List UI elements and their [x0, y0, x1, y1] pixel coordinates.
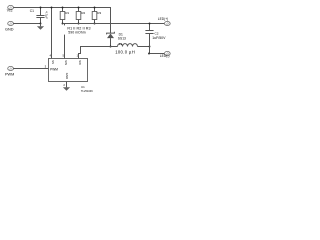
terminal LED(+) — [158, 17, 170, 26]
wire SW node to U1 SW pin — [79, 47, 111, 59]
terminal LED(-) — [160, 51, 170, 58]
wire sense rail to LED+ terminal — [63, 23, 165, 25]
terminal GND — [5, 21, 14, 31]
node junction C1 bottom / GND wire — [40, 23, 42, 25]
svg-text:R2: R2 — [81, 11, 85, 15]
svg-text:1uF/50V: 1uF/50V — [152, 36, 166, 40]
svg-text:R3: R3 — [97, 11, 101, 15]
svg-text:100.0 µH: 100.0 µH — [115, 50, 135, 55]
svg-text:GND: GND — [65, 73, 69, 79]
svg-text:PWM: PWM — [50, 67, 58, 71]
node corner to LED- wire — [148, 53, 150, 55]
wire top rail from Vcc to corner, down to diode cathode — [13, 8, 110, 34]
terminal Vcc — [7, 5, 14, 12]
node junction VIN drop on rail — [51, 7, 53, 9]
svg-text:Vcc: Vcc — [7, 9, 13, 13]
inductor L1 — [111, 42, 150, 54]
wire U1 GND pin — [66, 82, 68, 88]
node R2 bottom — [78, 23, 80, 25]
capacitor C2 — [145, 24, 166, 54]
svg-text:U1: U1 — [81, 85, 85, 89]
node R3 bottom — [94, 23, 96, 25]
ground symbol under U1 — [63, 87, 70, 91]
svg-text:GND: GND — [5, 27, 14, 31]
node SW junction at diode anode — [110, 46, 112, 48]
svg-text:LED(-): LED(-) — [160, 54, 170, 58]
value label R1 R2 R3 590 mOhm — [63, 25, 92, 34]
node junction C1 top on rail — [40, 7, 42, 9]
svg-text:SS13: SS13 — [118, 37, 126, 41]
wire GND terminal to C1 bottom node — [13, 23, 40, 25]
svg-text:VIN: VIN — [64, 60, 68, 65]
terminal PWM — [5, 66, 14, 76]
resistor R1 — [60, 8, 69, 24]
ground symbol under C1 — [37, 24, 44, 30]
svg-text:R1: R1 — [65, 11, 69, 15]
svg-text:590 mOhm: 590 mOhm — [68, 31, 85, 35]
svg-text:4.7µF: 4.7µF — [44, 11, 48, 19]
svg-text:SW: SW — [78, 60, 82, 65]
node C2 top on sense rail — [149, 23, 151, 25]
capacitor C1 — [30, 8, 49, 24]
wire U1 sense pin to rail — [64, 24, 66, 59]
diode D1 schottky — [107, 32, 126, 47]
node R2 top — [78, 7, 80, 9]
wire PWM terminal to U1 CTRL pin — [13, 68, 48, 70]
node inductor / C2 bottom junction — [149, 46, 151, 48]
node R1 top — [62, 7, 64, 9]
svg-text:LED(+): LED(+) — [158, 17, 169, 21]
node R3 top — [94, 7, 96, 9]
resistor R3 — [92, 8, 101, 24]
svg-text:PWM: PWM — [5, 72, 14, 76]
wire to LED- terminal — [150, 53, 165, 55]
node R1 bottom — [62, 23, 64, 25]
svg-text:C1: C1 — [30, 9, 34, 13]
wire VIN pin drop from top rail to U1 — [51, 8, 53, 59]
svg-text:C2: C2 — [155, 31, 159, 35]
IC U1 body — [49, 59, 88, 82]
svg-text:L1: L1 — [119, 42, 123, 46]
svg-text:VS: VS — [51, 60, 55, 64]
svg-text:TLV61046: TLV61046 — [81, 89, 93, 93]
resistor R2 — [76, 8, 85, 24]
